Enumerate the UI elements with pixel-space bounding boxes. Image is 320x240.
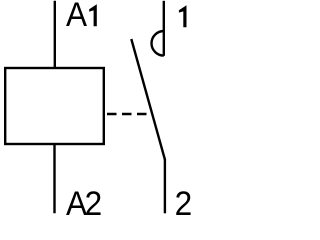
svg-text:A2: A2 (66, 184, 102, 221)
label 1 (179, 5, 187, 27)
svg-text:A: A (66, 0, 87, 33)
svg-text:2: 2 (175, 184, 193, 221)
mechanical link dashed (107, 113, 149, 115)
wire terminal 2 lead (164, 159, 166, 214)
wire A1 lead (54, 1, 56, 68)
coil K1 (5, 68, 104, 144)
moving contact (131, 39, 165, 160)
contactor function arc (152, 31, 164, 56)
wire A2 lead (53, 144, 55, 213)
wire terminal 1 lead (163, 1, 165, 56)
